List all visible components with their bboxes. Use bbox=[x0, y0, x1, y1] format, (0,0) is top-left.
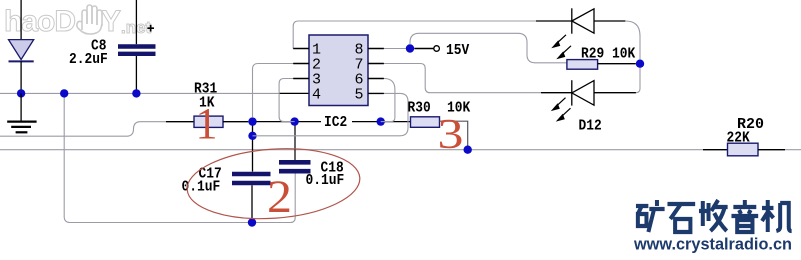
svg-text:1: 1 bbox=[196, 99, 218, 148]
svg-text:0.1uF: 0.1uF bbox=[306, 172, 345, 189]
svg-text:4: 4 bbox=[312, 87, 321, 104]
wire: pin6 loop to R30 left node bbox=[381, 79, 395, 122]
capacitor C8 bbox=[69, 0, 156, 93]
wire: pin2 loop from R31 node up to pin2 bbox=[253, 64, 310, 118]
char shou bbox=[699, 200, 728, 231]
junction dot at diode/bus bbox=[17, 89, 25, 97]
junction dot node B bbox=[636, 60, 644, 68]
svg-text:D12: D12 bbox=[579, 118, 602, 135]
watermark haoDIY.net bbox=[4, 5, 152, 38]
ground bbox=[7, 93, 36, 132]
svg-text:www.crystalradio.cn: www.crystalradio.cn bbox=[633, 235, 792, 254]
char shi bbox=[667, 204, 695, 232]
capacitor C18 bbox=[279, 122, 344, 189]
junction dot gnd/C8 bbox=[132, 89, 140, 97]
junction dot gnd/x64 bbox=[60, 89, 68, 97]
node 15V bbox=[406, 42, 469, 59]
resistor R20 bbox=[703, 116, 785, 156]
wire: pin5 loop to node 252 bbox=[253, 93, 409, 135]
svg-text:haoD: haoD bbox=[4, 5, 75, 38]
wire: vertical through R31 node down to C17 bbox=[252, 122, 254, 172]
capacitor C17 bbox=[182, 166, 271, 223]
wire: pin7 to D12 cathode bbox=[384, 64, 541, 93]
svg-text:R30: R30 bbox=[408, 100, 431, 117]
char ji bbox=[762, 200, 792, 232]
D12 emission arrows bbox=[553, 98, 571, 121]
svg-text:R29 10K: R29 10K bbox=[581, 46, 635, 63]
resistor R29 bbox=[567, 46, 636, 70]
wire: pin3 loop bbox=[279, 79, 309, 122]
wire: long bus y=149.7 full width bbox=[0, 149, 801, 151]
svg-text:Y: Y bbox=[101, 5, 121, 38]
wire: node B down to D12 anode bbox=[636, 68, 640, 93]
wire: R30 right down to bus bbox=[440, 121, 468, 150]
wire: ground return: down at x=64, bottom bus y=222.5, up to C18 bbox=[64, 93, 295, 222]
annotation red circle (ellipse around C17/C18) bbox=[185, 143, 362, 224]
wire: 15V over the top to R29 bbox=[410, 33, 567, 63]
wire: pin1 up and over to LED1 cathode bbox=[293, 21, 536, 49]
svg-text:22K: 22K bbox=[727, 130, 750, 147]
svg-text:15V: 15V bbox=[446, 42, 469, 59]
junction dot pin5 node bbox=[248, 132, 256, 140]
junction dot bottom bus / C17 bbox=[248, 218, 256, 226]
junction dot bus/R30 bbox=[464, 146, 472, 154]
resistor R31 bbox=[166, 81, 248, 128]
LED upper emission arrows bbox=[553, 35, 571, 58]
resistor R30 bbox=[408, 100, 471, 128]
svg-text:3: 3 bbox=[438, 112, 464, 158]
junction dot R31 right bbox=[248, 117, 256, 125]
diode (input) bbox=[9, 0, 34, 93]
wire: left y=136 line with S-bend up to R31 level bbox=[0, 122, 166, 137]
svg-text:IC2: IC2 bbox=[324, 114, 347, 131]
svg-text:5: 5 bbox=[355, 87, 364, 104]
junction dot IC2bus/R30left bbox=[377, 117, 385, 125]
wire: pin8 to 15V node bbox=[384, 48, 406, 50]
char kuang bbox=[636, 200, 665, 232]
watermark crystalradio (CJK drawn strokes) bbox=[636, 200, 792, 232]
junction dot IC2bus/C18 bbox=[290, 117, 298, 125]
wire: LED1 anode curve down to node B bbox=[625, 21, 640, 59]
svg-text:2.2uF: 2.2uF bbox=[69, 51, 108, 68]
wire: IC2 bus y=121.6 from R31 node to R30 bbox=[253, 121, 411, 123]
wire: pin4 stub continuation black bbox=[279, 92, 309, 94]
op-amp IC2 body bbox=[293, 35, 384, 131]
char yin bbox=[731, 200, 758, 232]
LED upper (parallel with R29) bbox=[572, 8, 626, 33]
wire: left gnd bus y=93.4 bbox=[0, 92, 279, 94]
LED D12 bbox=[572, 80, 594, 105]
svg-text:2: 2 bbox=[267, 171, 292, 223]
